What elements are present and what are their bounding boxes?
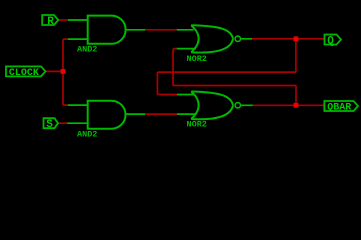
svg-text:QBAR: QBAR [327,102,351,113]
svg-text:CLOCK: CLOCK [9,68,39,79]
wire AND2 top output to NOR2 top input net [145,29,177,31]
port tag CLOCK [6,66,46,79]
node Q junction [294,36,299,41]
node CLOCK junction [61,69,66,74]
svg-text:AND2: AND2 [77,129,97,139]
svg-text:R: R [47,16,54,28]
wire S net [58,122,67,124]
svg-text:Q: Q [327,35,334,47]
and-gate AND2 bottom [67,101,145,129]
wire CLOCK net [46,39,68,105]
svg-text:NOR2: NOR2 [187,120,207,130]
port tag QBAR [324,101,358,113]
svg-text:AND2: AND2 [77,44,97,54]
port tag Q [325,35,342,48]
wire Q net with feedback to bottom NOR2 input [157,39,324,95]
node QBAR junction [294,103,299,108]
and-gate AND2 top [68,16,145,44]
svg-text:NOR2: NOR2 [187,54,207,64]
nor-gate NOR2 top [177,25,252,52]
port tag S [44,118,59,131]
wire R net [58,19,68,21]
wire AND2 bottom output to NOR2 bottom input net [145,113,177,115]
wire QBAR net with feedback to top NOR2 input [173,49,324,106]
svg-text:S: S [46,119,53,131]
nor-gate NOR2 bottom [177,92,253,120]
port tag R [42,15,58,28]
